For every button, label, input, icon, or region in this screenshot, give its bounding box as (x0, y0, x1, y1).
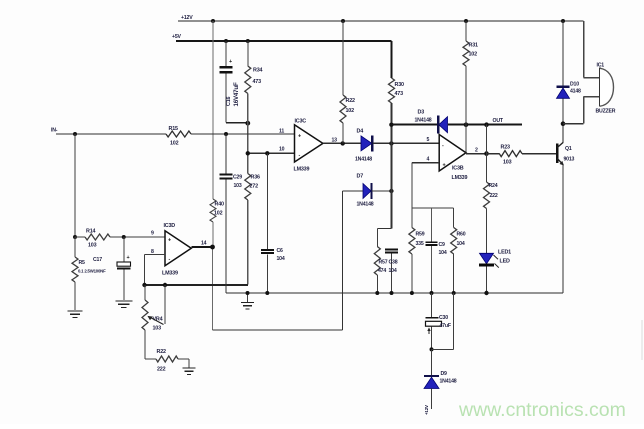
svg-text:+: + (298, 134, 301, 140)
svg-text:R59: R59 (416, 232, 425, 238)
svg-text:D4: D4 (357, 129, 364, 135)
svg-text:LM339: LM339 (294, 167, 310, 173)
svg-text:102: 102 (346, 108, 355, 114)
svg-text:BUZZER: BUZZER (596, 109, 616, 115)
svg-text:272: 272 (250, 184, 259, 190)
svg-text:1N4148: 1N4148 (355, 157, 372, 163)
svg-text:D10: D10 (570, 82, 579, 88)
svg-text:13: 13 (332, 138, 338, 144)
svg-text:R57: R57 (379, 260, 388, 266)
svg-text:9013: 9013 (564, 157, 575, 163)
svg-text:4: 4 (427, 157, 430, 163)
svg-text:104: 104 (439, 250, 447, 256)
svg-text:47uF: 47uF (440, 323, 451, 329)
svg-text:R22: R22 (157, 349, 166, 355)
svg-text:R15: R15 (169, 126, 178, 132)
svg-text:+: + (229, 59, 232, 65)
svg-text:103: 103 (153, 326, 162, 332)
svg-text:10: 10 (279, 147, 285, 153)
svg-text:R24: R24 (489, 183, 498, 189)
svg-text:102: 102 (214, 211, 223, 217)
svg-text:473: 473 (253, 79, 262, 85)
svg-text:104: 104 (389, 268, 397, 274)
svg-text:C6: C6 (277, 248, 284, 254)
svg-text:IC3B: IC3B (452, 166, 464, 172)
svg-text:D3: D3 (418, 110, 425, 116)
svg-text:IC3D: IC3D (164, 223, 176, 229)
svg-text:OUT: OUT (493, 118, 504, 124)
svg-text:R40: R40 (215, 202, 224, 208)
svg-text:+: + (168, 238, 171, 244)
svg-text:LED: LED (500, 259, 510, 265)
svg-text:R22: R22 (346, 98, 355, 104)
svg-text:R60: R60 (457, 232, 466, 238)
svg-text:1N4148: 1N4148 (440, 379, 457, 385)
svg-text:1N4148: 1N4148 (415, 118, 432, 124)
svg-text:D7: D7 (357, 174, 364, 180)
svg-text:R34: R34 (253, 68, 262, 74)
svg-text:11: 11 (279, 129, 284, 135)
svg-text:335: 335 (416, 241, 424, 247)
svg-text:0.1 2.5W100NF: 0.1 2.5W100NF (78, 269, 106, 274)
svg-text:R23: R23 (501, 145, 510, 151)
svg-text:C38: C38 (389, 260, 398, 266)
svg-text:+12V: +12V (181, 15, 193, 21)
svg-text:5: 5 (427, 137, 430, 143)
svg-text:4148: 4148 (570, 89, 581, 95)
svg-text:R36: R36 (251, 175, 260, 181)
svg-text:102: 102 (170, 141, 179, 147)
svg-text:C9: C9 (439, 242, 446, 248)
svg-text:C16: C16 (226, 97, 232, 106)
svg-text:473: 473 (395, 91, 404, 97)
svg-text:104: 104 (277, 256, 285, 262)
svg-text:474: 474 (378, 268, 386, 274)
svg-text:IC1: IC1 (597, 63, 605, 69)
svg-text:103: 103 (503, 160, 512, 166)
svg-text:+: + (443, 163, 446, 169)
svg-text:R14: R14 (86, 229, 95, 235)
svg-text:9: 9 (151, 231, 154, 237)
svg-text:R30: R30 (395, 82, 404, 88)
svg-text:1N4148: 1N4148 (357, 202, 374, 208)
svg-text:+5V: +5V (172, 34, 182, 40)
svg-text:IN-: IN- (51, 128, 58, 134)
svg-text:222: 222 (157, 367, 166, 373)
svg-text:2: 2 (475, 148, 478, 154)
svg-text:R31: R31 (469, 43, 478, 49)
svg-text:R5: R5 (79, 260, 86, 266)
svg-text:IC3C: IC3C (295, 119, 307, 125)
svg-text:www.cntronics.com: www.cntronics.com (458, 399, 626, 421)
svg-text:16V47uF: 16V47uF (233, 82, 240, 106)
svg-text:+12V: +12V (424, 405, 429, 415)
svg-text:C29: C29 (233, 175, 242, 181)
svg-text:102: 102 (469, 52, 478, 58)
svg-text:LM339: LM339 (452, 175, 468, 181)
svg-text:Q1: Q1 (565, 146, 572, 152)
svg-text:C30: C30 (439, 315, 448, 321)
svg-text:LM339: LM339 (162, 271, 178, 277)
svg-text:C17: C17 (93, 257, 102, 263)
svg-text:LED1: LED1 (498, 250, 511, 256)
svg-text:103: 103 (88, 243, 97, 249)
svg-text:104: 104 (457, 241, 465, 247)
svg-text:103: 103 (234, 183, 242, 189)
svg-text:222: 222 (490, 193, 498, 199)
svg-text:+: + (127, 255, 130, 261)
svg-text:14: 14 (201, 241, 207, 247)
svg-text:D9: D9 (441, 371, 448, 377)
